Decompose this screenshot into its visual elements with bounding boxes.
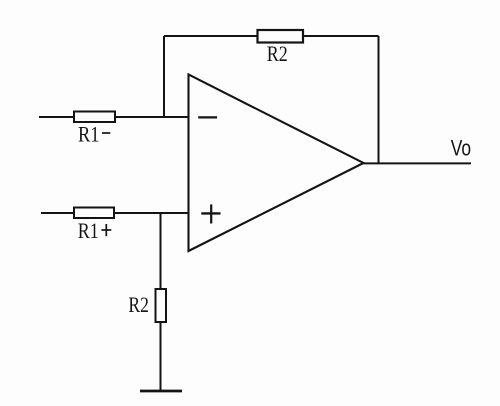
svg-text:R2: R2: [267, 41, 288, 66]
resistor R2 (feedback): [258, 30, 304, 43]
wire: inverting input lead left: [39, 116, 74, 118]
op-amp U1: [189, 75, 364, 252]
svg-text:R1: R1: [78, 122, 100, 147]
resistor R1 (inverting input): [74, 112, 115, 123]
wire: non-inverting input lead left: [41, 212, 74, 214]
wire: feedback vertical right down to output: [378, 36, 380, 163]
wire: non-inverting input lead right to op-amp: [114, 212, 189, 214]
svg-text:R1: R1: [78, 218, 99, 243]
wire: feedback top left segment: [164, 35, 258, 37]
resistor R2 (to ground): [156, 289, 167, 322]
wire: vertical from non-inverting node down to R2: [160, 213, 162, 289]
wire: feedback vertical left (node at inverting input): [163, 36, 165, 117]
label R1+: [78, 218, 112, 243]
ground: [140, 390, 182, 393]
label Vo: [451, 136, 471, 161]
wire: feedback top right segment: [303, 35, 379, 37]
svg-text:Vo: Vo: [451, 136, 471, 161]
svg-text:R2: R2: [128, 292, 149, 317]
op-amp non-inverting input marker (+): [201, 204, 220, 223]
op-amp inverting input marker (−): [198, 116, 217, 118]
label R2 (feedback): [267, 41, 288, 66]
wire: output: [364, 162, 472, 164]
wire: inverting input lead right to op-amp: [115, 116, 189, 118]
label R1−: [78, 122, 110, 147]
resistor R1 (non-inverting input): [74, 208, 114, 219]
label R2 (to ground): [128, 292, 149, 317]
wire: R2 bottom lead to ground: [160, 322, 162, 391]
